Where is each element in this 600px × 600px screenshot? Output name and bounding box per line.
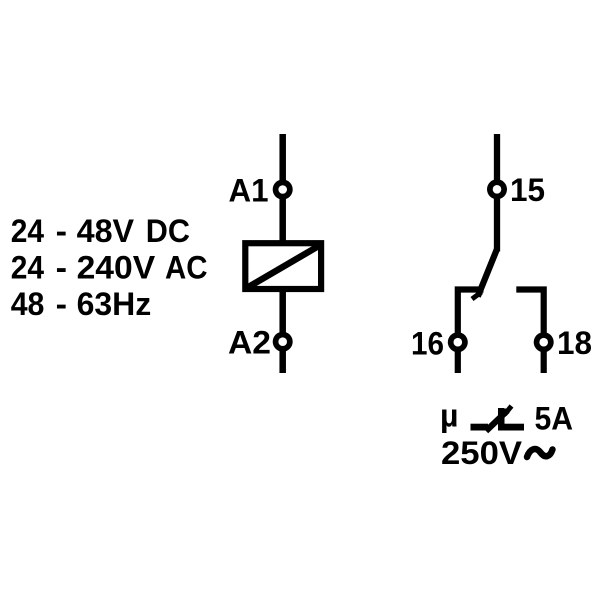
wire fixed contact 16 (L shape)	[458, 290, 484, 374]
switch rating icon (micro-gap switch symbol)	[471, 406, 525, 431]
label voltage rating line 2	[11, 250, 208, 286]
svg-text:-: -	[56, 213, 67, 249]
terminal 15	[487, 179, 507, 199]
svg-text:A1: A1	[229, 173, 269, 209]
svg-text:µ: µ	[440, 398, 458, 434]
svg-text:5A: 5A	[535, 401, 574, 437]
svg-text:18: 18	[557, 325, 592, 361]
svg-text:16: 16	[411, 326, 444, 362]
svg-text:DC: DC	[146, 213, 190, 249]
svg-text:250V: 250V	[441, 435, 523, 471]
terminal A2	[273, 332, 293, 352]
coil K (relay coil rectangle with diagonal)	[245, 243, 321, 289]
AC tilde symbol	[527, 449, 553, 457]
terminal 16	[448, 332, 468, 352]
svg-text:A2: A2	[228, 325, 271, 361]
svg-text:48: 48	[11, 286, 45, 322]
svg-text:AC: AC	[165, 250, 208, 286]
terminal 18	[534, 332, 554, 352]
switch lever (moving contact from 15)	[472, 249, 497, 299]
svg-text:-: -	[56, 250, 67, 286]
svg-text:24: 24	[11, 250, 44, 286]
wire fixed contact 18 (inverted L shape)	[516, 290, 543, 374]
svg-text:24: 24	[11, 213, 44, 249]
svg-text:15: 15	[510, 172, 545, 208]
wire coil branch vertical (A1 to A2)	[279, 134, 286, 373]
wire contact branch vertical (terminal 15 feed)	[494, 134, 500, 252]
label frequency rating line 3	[11, 286, 152, 322]
terminal A1	[273, 180, 293, 200]
svg-text:-: -	[56, 286, 67, 322]
svg-text:240V: 240V	[77, 250, 156, 286]
label voltage rating line 1	[11, 213, 190, 249]
svg-text:63Hz: 63Hz	[77, 286, 152, 322]
svg-text:48V: 48V	[77, 213, 135, 249]
